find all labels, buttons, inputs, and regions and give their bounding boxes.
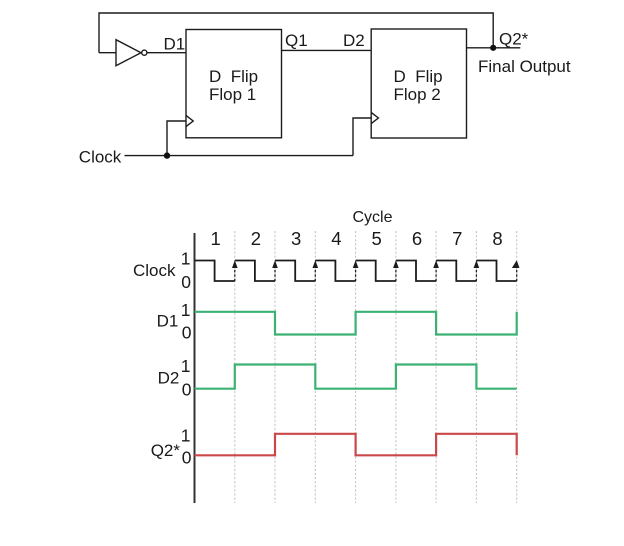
svg-text:D2: D2	[343, 31, 365, 50]
svg-text:Q2*: Q2*	[499, 29, 529, 48]
svg-text:Q2*: Q2*	[151, 441, 181, 460]
svg-text:4: 4	[331, 228, 341, 249]
svg-text:5: 5	[372, 228, 382, 249]
svg-text:0: 0	[182, 447, 192, 467]
svg-text:0: 0	[182, 379, 192, 399]
svg-text:0: 0	[182, 322, 192, 342]
svg-text:1: 1	[210, 228, 220, 249]
svg-text:8: 8	[492, 228, 502, 249]
svg-text:D2: D2	[158, 369, 180, 388]
svg-text:Flop 1: Flop 1	[209, 85, 256, 104]
svg-text:D1: D1	[164, 34, 186, 53]
svg-text:1: 1	[181, 300, 191, 320]
svg-text:Final Output: Final Output	[478, 57, 571, 76]
svg-text:1: 1	[181, 356, 191, 376]
svg-text:D Flip: D Flip	[209, 67, 258, 86]
svg-text:3: 3	[291, 228, 301, 249]
svg-text:D1: D1	[157, 311, 179, 330]
svg-text:2: 2	[251, 228, 261, 249]
svg-text:Clock: Clock	[79, 147, 122, 166]
svg-text:Flop 2: Flop 2	[394, 85, 441, 104]
svg-text:1: 1	[181, 425, 191, 445]
svg-text:D Flip: D Flip	[394, 67, 443, 86]
svg-text:1: 1	[181, 249, 191, 269]
svg-text:6: 6	[412, 228, 422, 249]
svg-text:Q1: Q1	[285, 31, 308, 50]
svg-text:Clock: Clock	[133, 261, 176, 280]
svg-text:0: 0	[181, 272, 191, 292]
svg-text:7: 7	[452, 228, 462, 249]
svg-text:Cycle: Cycle	[352, 209, 392, 226]
